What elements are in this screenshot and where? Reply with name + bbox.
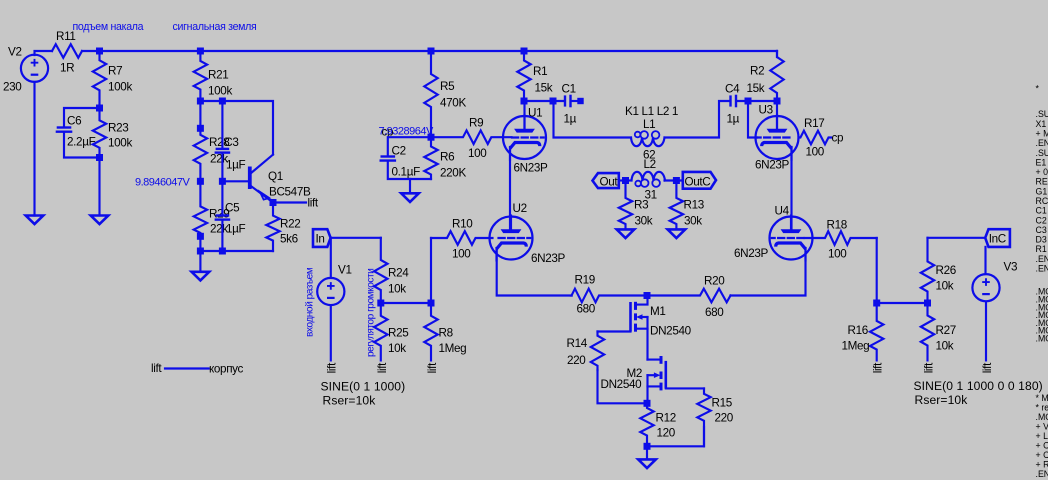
label L1 — [643, 118, 655, 131]
label R20 — [704, 275, 725, 288]
svg-text:DN2540: DN2540 — [601, 378, 643, 391]
resistor R2 — [770, 51, 783, 101]
net flag In — [313, 229, 331, 247]
svg-text:.MODEL DX D: .MODEL DX D — [1036, 334, 1048, 344]
wire base — [222, 180, 248, 182]
svg-text:R13: R13 — [684, 199, 704, 212]
wire U1 plate — [523, 101, 525, 130]
svg-text:R12: R12 — [656, 412, 676, 425]
svg-text:.MODEL DN2540 NMOS: .MODEL DN2540 NMOS — [1036, 412, 1048, 422]
svg-text:D3 5 3 DX: D3 5 3 DX — [1036, 235, 1048, 245]
svg-text:R14: R14 — [567, 337, 588, 350]
junction — [428, 300, 435, 307]
junction — [96, 154, 103, 161]
wire emitter to lift — [273, 201, 306, 203]
svg-text:100k: 100k — [108, 81, 132, 94]
wire R12 ground stem — [646, 446, 648, 459]
value 2.2uF — [67, 136, 96, 149]
svg-text:1µF: 1µF — [226, 223, 246, 236]
svg-text:R2: R2 — [750, 65, 764, 78]
svg-text:5k6: 5k6 — [280, 233, 298, 246]
svg-text:C2: C2 — [392, 145, 406, 158]
label V3 — [1004, 261, 1018, 274]
value 62 — [643, 149, 655, 162]
svg-text:R27: R27 — [936, 324, 956, 337]
svg-text:0.1µF: 0.1µF — [392, 166, 421, 179]
svg-text:входной разъем: входной разъем — [305, 267, 316, 337]
resistor R24 — [374, 238, 387, 303]
svg-text:.ENDS: .ENDS — [1036, 254, 1048, 264]
wire top rail left — [35, 51, 53, 55]
label R17 — [804, 117, 824, 130]
svg-text:470K: 470K — [440, 97, 466, 110]
svg-text:6N23P: 6N23P — [734, 247, 769, 260]
label R12 — [656, 412, 676, 425]
net label korpus — [209, 363, 244, 376]
junction — [521, 98, 528, 105]
svg-text:R1 2 5 2K: R1 2 5 2K — [1036, 244, 1048, 254]
svg-text:G1 1 3 VALUE=: G1 1 3 VALUE= — [1036, 186, 1048, 196]
value 6N23P U4 — [734, 247, 769, 260]
wire C1 drop to L1 — [554, 101, 632, 138]
wire R10 riser — [430, 238, 432, 303]
svg-text:lift: lift — [326, 362, 339, 373]
svg-text:10k: 10k — [936, 280, 954, 293]
svg-text:BC547B: BC547B — [269, 186, 311, 199]
spice netlist text column — [1036, 84, 1048, 480]
svg-text:+ CGSO=100P: + CGSO=100P — [1036, 441, 1048, 451]
junction — [644, 443, 651, 450]
svg-text:R10: R10 — [452, 218, 473, 231]
resistor R14 — [591, 332, 604, 371]
svg-text:6N23P: 6N23P — [755, 159, 790, 172]
resistor R17 — [799, 131, 832, 145]
label C3 — [224, 136, 238, 149]
svg-text:680: 680 — [705, 306, 724, 319]
svg-text:R25: R25 — [388, 327, 409, 340]
wire C1 stub — [572, 100, 581, 102]
svg-text:R15: R15 — [712, 397, 733, 410]
svg-text:1µ: 1µ — [727, 113, 740, 126]
svg-text:K1 L1 L2 1: K1 L1 L2 1 — [625, 105, 678, 118]
junction — [96, 48, 103, 55]
voltage source V2 — [21, 55, 48, 82]
capacitor C4 — [731, 95, 737, 108]
label DN2540 M2 — [601, 378, 643, 391]
svg-text:L2: L2 — [644, 158, 656, 171]
svg-text:10k: 10k — [936, 340, 954, 353]
svg-text:R3: R3 — [634, 199, 648, 212]
label C1 — [562, 83, 576, 96]
resistor R18 — [805, 231, 877, 245]
svg-text:220: 220 — [567, 354, 586, 367]
junction — [644, 292, 651, 299]
junction — [428, 48, 435, 55]
label Q1 — [268, 170, 283, 183]
wire C3 bottom — [221, 154, 223, 182]
capacitor C1 — [565, 95, 571, 108]
svg-text:lift: lift — [426, 362, 439, 373]
label R27 — [936, 324, 956, 337]
svg-text:L1: L1 — [643, 118, 655, 131]
resistor R3 — [619, 181, 632, 229]
resistor R7 — [93, 51, 106, 108]
junction — [873, 300, 880, 307]
svg-text:C5: C5 — [225, 202, 240, 215]
svg-text:15k: 15k — [747, 82, 765, 95]
svg-text:+ CGDO=50P: + CGDO=50P — [1036, 450, 1048, 460]
resistor R23 — [93, 108, 106, 158]
svg-text:U4: U4 — [775, 205, 790, 218]
svg-text:cp: cp — [832, 132, 844, 145]
wire top rail — [82, 50, 777, 52]
value 1uF C3 — [226, 159, 246, 172]
wire R6 bottom — [410, 179, 431, 193]
svg-text:120: 120 — [657, 427, 676, 440]
value 15k R1 — [535, 82, 553, 95]
wire C6 top branch — [64, 108, 100, 126]
svg-text:R16: R16 — [848, 324, 868, 337]
junction — [924, 300, 931, 307]
label R13 — [684, 199, 704, 212]
label R16 — [848, 324, 868, 337]
junction — [197, 248, 204, 255]
triode U3 — [756, 115, 799, 160]
label R10 — [452, 218, 473, 231]
wire right row — [877, 302, 928, 304]
value 1R — [60, 62, 74, 75]
svg-text:In: In — [316, 233, 325, 246]
resistor R19 — [572, 289, 648, 303]
svg-text:lift: lift — [922, 362, 935, 373]
value 100 R17 — [806, 146, 825, 159]
svg-text:C3: C3 — [224, 136, 238, 149]
wire U3 plate — [776, 101, 778, 130]
label C6 — [67, 115, 81, 128]
value 22k R29 — [210, 223, 228, 236]
transistor Q1 — [250, 155, 273, 203]
svg-text:регулятор громкости: регулятор громкости — [366, 269, 377, 357]
svg-text:SINE(0 1 1000): SINE(0 1 1000) — [321, 380, 406, 394]
svg-text:220: 220 — [715, 412, 734, 425]
svg-text:C2 1 2 1.4P: C2 1 2 1.4P — [1036, 215, 1048, 225]
junction — [577, 98, 583, 104]
wire chain ground stem — [199, 251, 201, 272]
comment podjem nakala — [73, 21, 144, 33]
comment reguljator gromkosti — [366, 269, 377, 357]
svg-text:lift: lift — [151, 362, 162, 375]
svg-text:lift: lift — [308, 196, 319, 209]
svg-text:220K: 220K — [440, 167, 466, 180]
label R18 — [827, 219, 847, 232]
wire Out to L2 — [619, 179, 632, 181]
wire R23 to ground — [98, 158, 100, 216]
net flag Out — [593, 173, 619, 188]
label K1 L1 L2 1 — [625, 105, 678, 118]
svg-text:lift: lift — [981, 362, 994, 373]
wire InC to V3 — [984, 247, 986, 274]
resistor R11 — [52, 44, 82, 58]
svg-text:InC: InC — [989, 233, 1006, 246]
directive Rser V1 — [323, 393, 377, 407]
svg-text:U3: U3 — [759, 104, 773, 117]
value 10k R26 — [936, 280, 954, 293]
text OutC — [685, 176, 711, 189]
value 6N23P U1 — [514, 162, 549, 175]
svg-text:lift: lift — [376, 362, 389, 373]
svg-text:.SUBCKT TRIODE A G K: .SUBCKT TRIODE A G K — [1036, 148, 1048, 158]
label R1 — [533, 65, 547, 78]
value 10k R27 — [936, 340, 954, 353]
wire C4 grid drop — [748, 101, 757, 138]
ground at R3 — [617, 229, 635, 238]
junction — [197, 125, 204, 132]
value 10k R25 — [388, 342, 406, 355]
svg-text:100: 100 — [468, 147, 487, 160]
label L2 — [644, 158, 656, 171]
svg-text:U2: U2 — [513, 202, 527, 215]
wire R18 drop — [876, 238, 878, 303]
value 470K — [440, 97, 466, 110]
ground at R12 R15 — [638, 459, 656, 468]
svg-text:R19: R19 — [575, 274, 595, 287]
net label lift R8 — [426, 362, 439, 373]
label R5 — [440, 80, 455, 93]
svg-text:100: 100 — [806, 146, 825, 159]
label C2 — [392, 145, 406, 158]
value 100 R9 — [468, 147, 487, 160]
junction — [644, 400, 651, 407]
label R24 — [388, 267, 409, 280]
wire C3 top — [221, 101, 223, 148]
net flag InC — [985, 229, 1010, 247]
node voltage 7.9328964V — [379, 125, 434, 137]
label V1 — [338, 264, 352, 277]
wire V1 to lift — [330, 305, 332, 360]
wire In row — [331, 237, 381, 239]
label U1 — [528, 107, 542, 120]
junction — [745, 98, 752, 105]
svg-text:.SUBCKT 6N23P A G K: .SUBCKT 6N23P A G K — [1036, 109, 1048, 119]
net label lift V3 — [981, 362, 994, 373]
svg-text:230: 230 — [3, 81, 22, 94]
wire InC row — [928, 237, 986, 239]
value 230 — [3, 81, 22, 94]
label R21 — [208, 69, 228, 82]
wire C6 bottom branch — [64, 133, 100, 158]
label R15 — [712, 397, 733, 410]
svg-text:R5: R5 — [440, 80, 455, 93]
resistor R21 — [194, 51, 207, 101]
text In — [316, 233, 325, 246]
svg-text:10k: 10k — [388, 342, 406, 355]
svg-text:RE1 7 0 1G: RE1 7 0 1G — [1036, 177, 1048, 187]
comment vhodnoj razjem — [305, 267, 316, 337]
junction — [622, 177, 629, 184]
resistor R29 — [194, 181, 207, 251]
value 31 — [645, 189, 657, 202]
resistor R16 — [870, 303, 883, 360]
resistor R12 — [640, 403, 653, 446]
label R6 — [440, 151, 454, 164]
svg-text:30k: 30k — [684, 215, 702, 228]
svg-text:сигнальная земля: сигнальная земля — [173, 21, 257, 33]
label R2 — [750, 65, 764, 78]
svg-text:R20: R20 — [704, 275, 725, 288]
label R19 — [575, 274, 595, 287]
svg-text:X1 A G K TRIODE: X1 A G K TRIODE — [1036, 119, 1048, 129]
svg-text:подъем накала: подъем накала — [73, 21, 144, 33]
svg-text:R22: R22 — [280, 218, 300, 231]
value 0.1uF — [392, 166, 421, 179]
net label cp at C2 node — [382, 126, 394, 139]
voltage source V3 — [972, 274, 999, 301]
resistor R9 — [433, 130, 512, 144]
value 30k R13 — [684, 215, 702, 228]
directive Rser V3 — [915, 393, 969, 407]
wire In to V1 — [330, 238, 332, 278]
transistor M2 — [648, 356, 705, 403]
value 6N23P U3 — [755, 159, 790, 172]
svg-text:C4: C4 — [725, 83, 740, 96]
svg-text:+ 0.636: + 0.636 — [1036, 167, 1048, 177]
label R28 — [209, 136, 229, 149]
svg-text:6N23P: 6N23P — [531, 252, 566, 265]
svg-text:15k: 15k — [535, 82, 553, 95]
value 100k — [108, 137, 132, 150]
label U4 — [775, 205, 790, 218]
svg-text:+ LAMBDA=1M: + LAMBDA=1M — [1036, 431, 1048, 441]
resistor R27 — [921, 303, 934, 360]
svg-text:R7: R7 — [108, 65, 122, 78]
value 100k — [108, 81, 132, 94]
svg-text:.ENDS 6N23P: .ENDS 6N23P — [1036, 138, 1048, 148]
resistor R6 — [424, 137, 437, 179]
svg-text:V3: V3 — [1004, 261, 1018, 274]
wire V2 to ground — [33, 82, 35, 216]
label R3 — [634, 199, 648, 212]
value 120 — [657, 427, 676, 440]
svg-text:.ENDS: .ENDS — [1036, 264, 1048, 274]
svg-text:6N23P: 6N23P — [514, 162, 549, 175]
resistor R13 — [670, 181, 683, 229]
svg-text:Q1: Q1 — [268, 170, 283, 183]
wire R20 to U4 cathode — [731, 249, 806, 296]
junction — [219, 98, 226, 105]
junction — [377, 300, 384, 307]
svg-text:+ MU=32.5 EX=1.35: + MU=32.5 EX=1.35 — [1036, 129, 1048, 139]
junction — [550, 98, 557, 105]
wire bottom row to R22 — [200, 250, 273, 252]
svg-text:lift: lift — [872, 362, 885, 373]
label R7 — [108, 65, 122, 78]
value 220K — [440, 167, 466, 180]
value 220 R15 — [715, 412, 734, 425]
svg-text:V1: V1 — [338, 264, 352, 277]
wire U2 cathode row — [497, 249, 572, 296]
resistor R22 — [266, 203, 279, 252]
wire U1 cathode to U2 plate — [509, 147, 511, 230]
junction — [96, 105, 103, 112]
junction — [219, 178, 226, 185]
wire rail corner to R2 — [776, 51, 778, 57]
value 15k R2 — [747, 82, 765, 95]
wire C2 bottom branch — [388, 162, 410, 179]
svg-text:1µ: 1µ — [564, 113, 577, 126]
net label lift R27 — [922, 362, 935, 373]
text InC — [989, 233, 1006, 246]
value 6N23P U2 — [531, 252, 566, 265]
svg-text:R9: R9 — [469, 117, 483, 130]
capacitor C2 — [380, 157, 397, 161]
junction — [774, 98, 781, 105]
label DN2540 M1 — [650, 325, 692, 338]
ground at C2 R6 — [401, 193, 419, 202]
svg-text:RCP 1 3 1G: RCP 1 3 1G — [1036, 196, 1048, 206]
label R14 — [567, 337, 588, 350]
resistor R20 — [649, 289, 731, 303]
directive SINE V3 — [914, 379, 1043, 393]
wire U3 cathode to U4 plate — [790, 147, 792, 230]
svg-text:100k: 100k — [108, 137, 132, 150]
junction — [197, 48, 204, 55]
value 1u C4 — [727, 113, 740, 126]
net label lift R16 — [872, 362, 885, 373]
resistor R8 — [424, 303, 437, 360]
label C4 — [725, 83, 740, 96]
comment signalnaja zemlja — [173, 21, 257, 33]
net flag OutC — [683, 172, 716, 189]
svg-text:Rser=10k: Rser=10k — [915, 393, 969, 407]
capacitor C5 — [215, 216, 231, 220]
label V2 — [8, 46, 22, 59]
net label lift V1 — [326, 362, 339, 373]
svg-text:+ VTO=-1.9 KP=1.2: + VTO=-1.9 KP=1.2 — [1036, 422, 1048, 432]
label M2 — [627, 367, 643, 380]
value 100 R18 — [828, 248, 847, 261]
label R22 — [280, 218, 300, 231]
svg-text:R1: R1 — [533, 65, 547, 78]
junction — [197, 178, 204, 185]
value 100 R10 — [452, 248, 471, 261]
svg-text:C6: C6 — [67, 115, 81, 128]
junction — [197, 98, 204, 105]
triode U2 — [490, 216, 533, 261]
svg-text:+ RS=0.5: + RS=0.5 — [1036, 460, 1048, 470]
svg-text:Out: Out — [600, 176, 619, 189]
directive SINE V1 — [321, 380, 406, 394]
value 220 R14 — [567, 354, 586, 367]
junction — [219, 248, 226, 255]
junction — [521, 48, 528, 55]
ground at R23 — [91, 216, 109, 225]
value 22k R28 — [210, 153, 228, 166]
wire volume row — [381, 302, 431, 304]
value 1Meg R16 — [842, 340, 870, 353]
svg-text:100: 100 — [828, 248, 847, 261]
svg-text:V2: V2 — [8, 46, 22, 59]
value 5k6 — [280, 233, 298, 246]
svg-text:R18: R18 — [827, 219, 847, 232]
text Out — [600, 176, 619, 189]
wire R15 bottom — [647, 427, 704, 446]
net label lift at Q1 — [308, 196, 319, 209]
resistor R25 — [374, 303, 387, 360]
svg-text:1Meg: 1Meg — [439, 342, 467, 355]
svg-text:DN2540: DN2540 — [650, 325, 692, 338]
svg-text:30k: 30k — [635, 215, 653, 228]
ground at R13 — [668, 229, 686, 238]
